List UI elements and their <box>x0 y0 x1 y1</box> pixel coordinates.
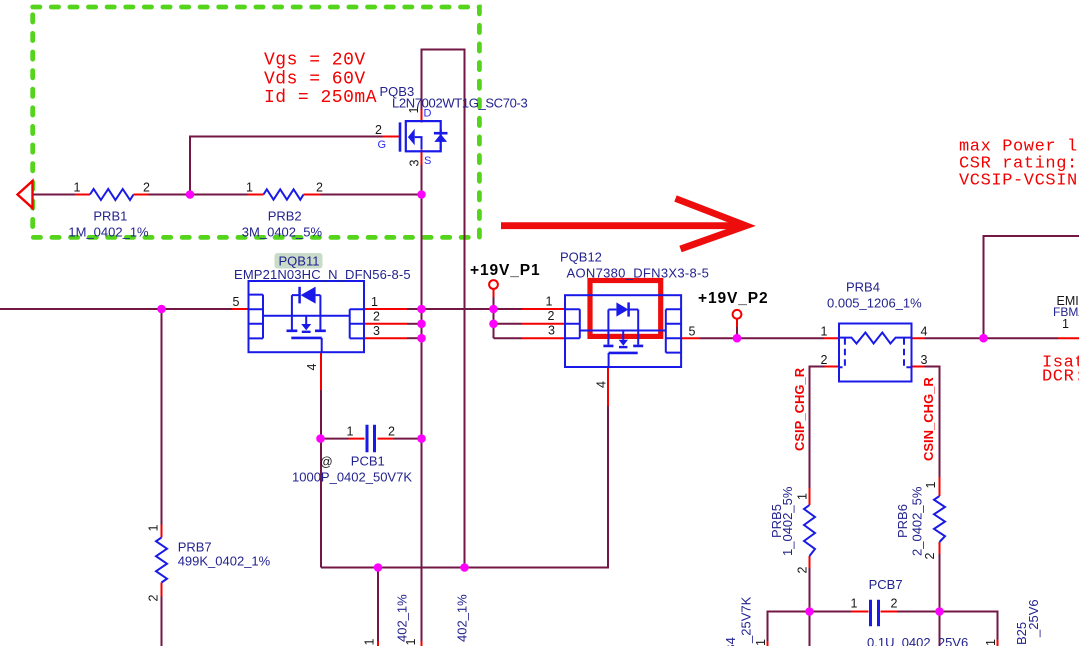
svg-text:S: S <box>424 155 431 167</box>
svg-text:2: 2 <box>548 309 555 323</box>
svg-text:@: @ <box>320 455 333 469</box>
green dashed highlight box <box>33 7 480 237</box>
svg-text:2: 2 <box>375 123 382 137</box>
svg-text:CSIN_CHG_R: CSIN_CHG_R <box>921 377 936 461</box>
net port +19V_P2 <box>733 310 742 319</box>
resistor PRB2 <box>264 189 304 199</box>
label PQB11 (highlighted) <box>275 253 323 269</box>
svg-text:1_0402_5%: 1_0402_5% <box>780 486 795 556</box>
red pin stubs <box>75 110 1079 646</box>
svg-text:2: 2 <box>821 353 828 367</box>
net port +19V_P1 <box>489 280 498 289</box>
svg-text:1: 1 <box>347 425 354 439</box>
svg-text:B4: B4 <box>723 637 738 646</box>
svg-text:VCSIP-VCSIN =: VCSIP-VCSIN = <box>959 172 1079 191</box>
svg-text:5: 5 <box>233 295 240 309</box>
op PQB11 body <box>249 281 365 352</box>
svg-text:3: 3 <box>408 160 422 167</box>
svg-text:Vds = 60V: Vds = 60V <box>264 69 366 89</box>
svg-text:0.005_1206_1%: 0.005_1206_1% <box>827 296 922 311</box>
capacitor PCB7 <box>871 600 879 626</box>
wire: PRB4 pin3 down to PRB6 <box>925 367 940 478</box>
svg-text:DCR:: DCR: <box>1042 368 1079 387</box>
resistor PRB1 <box>90 189 134 200</box>
red highlight square on PQB12 <box>590 281 661 337</box>
svg-text:1: 1 <box>851 597 858 611</box>
wire: top right corner net <box>984 236 1079 338</box>
big red annotation arrow <box>501 199 746 250</box>
op PQB12 body <box>565 295 681 367</box>
svg-text:CSIP_CHG_R: CSIP_CHG_R <box>792 367 807 451</box>
svg-text:1: 1 <box>363 639 377 646</box>
svg-text:1: 1 <box>754 639 768 646</box>
svg-text:1: 1 <box>924 482 938 489</box>
wire: PQB3 drain loop top and long right vertical <box>422 50 465 568</box>
wire: PQB11 pin3 tail <box>407 337 422 339</box>
transistor Q PQB3 symbol <box>400 121 448 152</box>
wire: main left net into PQB11 pin 5 <box>0 308 232 310</box>
svg-text:402_1%: 402_1% <box>395 594 410 642</box>
resistor PRB7 <box>156 538 167 583</box>
svg-text:2: 2 <box>923 553 937 560</box>
svg-text:1: 1 <box>74 181 81 195</box>
svg-text:+19V_P2: +19V_P2 <box>698 290 769 307</box>
svg-text:402_1%: 402_1% <box>455 594 470 642</box>
svg-text:PCB7: PCB7 <box>869 577 903 592</box>
resistor PRB6 <box>934 496 945 542</box>
svg-text:PRB7: PRB7 <box>178 540 212 555</box>
svg-text:3: 3 <box>373 324 380 338</box>
wire: bottom resistor at x=378 <box>377 568 379 642</box>
svg-text:PRB2: PRB2 <box>268 209 302 224</box>
svg-text:1: 1 <box>407 107 421 114</box>
wire: PRB5 bottom to bus and below <box>809 568 811 646</box>
wire: PRB6 bottom to bus and below <box>939 554 941 646</box>
svg-text:1000P_0402_50V7K: 1000P_0402_50V7K <box>292 470 412 485</box>
wire: PRB1-PRB2 middle segment <box>149 194 248 196</box>
off-page connector (left) <box>18 181 33 208</box>
wire: PCB1 row <box>321 438 422 440</box>
svg-text:2: 2 <box>147 595 161 602</box>
wire: +19V_P1 horizontal net <box>422 308 494 310</box>
wire: PQB12 pin5 to PRB4 pin1 <box>700 337 824 339</box>
svg-text:+19V_P1: +19V_P1 <box>470 262 541 279</box>
svg-text:2: 2 <box>388 425 395 439</box>
svg-text:3: 3 <box>921 353 928 367</box>
svg-text:Id = 250mA: Id = 250mA <box>264 88 377 108</box>
wire: +19V_P2 port drop <box>736 326 738 338</box>
wire: PRB7 vertical <box>161 309 163 646</box>
svg-text:PQB12: PQB12 <box>560 250 602 265</box>
svg-text:2: 2 <box>891 597 898 611</box>
svg-text:PCB1: PCB1 <box>351 454 385 469</box>
svg-text:2: 2 <box>373 310 380 324</box>
svg-text:4: 4 <box>305 364 319 371</box>
wire: +19V_P1 port drop with fanout <box>494 296 523 338</box>
svg-text:_25V7K: _25V7K <box>739 596 754 644</box>
svg-text:PRB1: PRB1 <box>93 209 127 224</box>
wire: PQB11 pin2 tail <box>407 323 422 325</box>
wire: PRB4 pin2 down to PRB5 <box>810 367 825 489</box>
svg-text:G: G <box>378 139 387 151</box>
svg-text:1: 1 <box>371 295 378 309</box>
svg-text:0.1U_0402_25V6: 0.1U_0402_25V6 <box>867 635 968 646</box>
svg-text:D: D <box>424 108 432 120</box>
svg-text:EMP21N03HC_N_DFN56-8-5: EMP21N03HC_N_DFN56-8-5 <box>234 267 411 282</box>
svg-text:Vgs = 20V: Vgs = 20V <box>264 51 366 71</box>
svg-text:499K_0402_1%: 499K_0402_1% <box>178 554 271 569</box>
svg-text:1: 1 <box>1062 317 1069 331</box>
wire: PQB3 source vertical down through PQB11 pin nodes to bottom resistor <box>421 165 423 641</box>
resistor PRB5 <box>804 505 815 556</box>
resistor PRB4 sense resistor <box>839 324 912 382</box>
svg-text:4: 4 <box>595 381 609 388</box>
svg-text:2_0402_5%: 2_0402_5% <box>910 486 925 556</box>
svg-text:1: 1 <box>147 525 161 532</box>
svg-text:3: 3 <box>548 324 555 338</box>
wire: PRB1 left segment <box>33 194 75 196</box>
svg-text:1: 1 <box>246 181 253 195</box>
svg-text:1: 1 <box>546 295 553 309</box>
capacitor PCB1 <box>367 425 375 453</box>
svg-text:4: 4 <box>921 325 928 339</box>
wire: PRB4 pin4 to right edge <box>925 337 1059 339</box>
svg-text:_25V6: _25V6 <box>1026 599 1041 638</box>
wire: PQB11 pin4 / PCB1 left vertical <box>320 390 322 568</box>
wire: PCB7 bus row <box>768 612 998 642</box>
svg-text:PRB4: PRB4 <box>846 280 880 295</box>
svg-text:1: 1 <box>984 639 998 646</box>
svg-text:PRB6: PRB6 <box>895 504 910 538</box>
svg-text:2: 2 <box>796 567 810 574</box>
wire: PQB11 pin1 tail <box>407 308 422 310</box>
wire: gate feedback up and right to PQB3 gate <box>190 137 383 195</box>
svg-text:3M_0402_5%: 3M_0402_5% <box>242 224 323 239</box>
svg-text:1: 1 <box>796 493 810 500</box>
svg-text:1: 1 <box>821 325 828 339</box>
svg-text:AON7380_DFN3X3-8-5: AON7380_DFN3X3-8-5 <box>567 266 710 281</box>
svg-text:2: 2 <box>316 181 323 195</box>
wire: PQB12 pin4 down and left along y=567 bus <box>321 406 608 568</box>
svg-text:2: 2 <box>143 181 150 195</box>
svg-text:5: 5 <box>689 325 696 339</box>
svg-text:1M_0402_1%: 1M_0402_1% <box>68 224 149 239</box>
wire: PRB2 right segment to source node <box>321 194 422 196</box>
